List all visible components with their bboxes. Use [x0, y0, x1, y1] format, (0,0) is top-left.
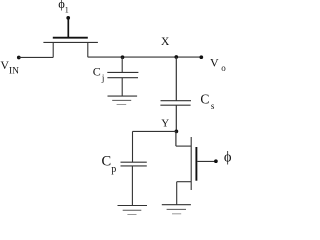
VIN input terminal dot [17, 56, 21, 60]
svg-text:1: 1 [65, 5, 69, 14]
transistor M2 gate terminal dot [214, 159, 218, 163]
svg-text:V: V [210, 56, 219, 70]
wire M1 drain to node X to Vo (top rail) [88, 56, 202, 58]
svg-text:s: s [211, 101, 215, 111]
wire node Y down to M2 drain [176, 131, 191, 146]
wire M2 source to ground [176, 182, 178, 205]
label Cs [200, 92, 215, 111]
svg-text:Y: Y [161, 117, 169, 129]
svg-text:ϕ: ϕ [224, 149, 232, 165]
label Vo (output) [210, 56, 226, 73]
capacitor Cj [107, 72, 138, 77]
svg-text:X: X [161, 36, 170, 48]
transistor M1 gate lead wire [67, 18, 69, 37]
svg-text:C: C [93, 65, 101, 79]
label Cp [102, 154, 117, 176]
wire rail down to Cj [121, 57, 123, 72]
capacitor Cp [121, 162, 147, 166]
junction dot Cj tap [121, 55, 125, 59]
node Y junction dot [175, 130, 179, 134]
transistor M2 (NMOS switch) [177, 137, 197, 190]
svg-text:IN: IN [9, 66, 19, 76]
Vo output terminal dot [199, 55, 203, 59]
svg-text:j: j [101, 73, 105, 83]
svg-text:C: C [102, 154, 112, 170]
svg-text:C: C [200, 92, 209, 107]
label phi1 (clock phase 1) [58, 0, 69, 14]
svg-text:o: o [221, 63, 226, 73]
svg-text:p: p [111, 164, 116, 175]
wire down to Cp [132, 131, 134, 162]
wire Cs to node Y [175, 105, 177, 131]
capacitor Cs [160, 101, 191, 106]
ground (below Cj) [108, 96, 138, 104]
ground (below Cp) [118, 206, 148, 215]
wire Cp to ground [131, 166, 133, 206]
ground (below M2) [162, 205, 191, 214]
transistor M2 gate lead wire [197, 160, 216, 162]
node X junction dot [174, 55, 178, 59]
wire VIN to M1 source [19, 56, 53, 58]
label Cj [93, 65, 105, 83]
wire node Y to Cp branch [133, 130, 177, 132]
wire Cj to ground [121, 78, 123, 96]
label VIN (input) [0, 58, 19, 76]
wire node X down to Cs [175, 57, 177, 101]
transistor M1 gate terminal dot [66, 16, 70, 20]
transistor M1 (NMOS pass gate) [43, 38, 98, 58]
